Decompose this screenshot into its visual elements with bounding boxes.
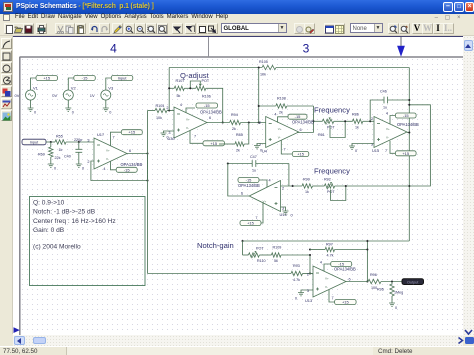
svg-text:V3: V3	[108, 86, 114, 91]
svg-text:Output: Output	[407, 280, 419, 284]
power bubble +15	[36, 76, 58, 81]
svg-text:7: 7	[255, 216, 257, 220]
resistor R109	[259, 254, 271, 256]
ground	[283, 211, 289, 214]
svg-text:R108: R108	[277, 97, 286, 101]
svg-text:+15: +15	[247, 221, 255, 226]
resistor R55	[55, 140, 66, 144]
resistor R96	[368, 279, 381, 283]
svg-text:Notch-gain: Notch-gain	[197, 241, 234, 250]
svg-text:1Meg: 1Meg	[394, 291, 403, 295]
svg-text:22k: 22k	[55, 156, 61, 160]
svg-text:7: 7	[113, 136, 115, 140]
svg-text:220p: 220p	[74, 138, 82, 142]
svg-text:0: 0	[295, 297, 297, 301]
svg-text:0: 0	[82, 167, 84, 171]
svg-text:POT: POT	[256, 247, 264, 251]
resistor R105	[262, 65, 276, 69]
ground	[254, 146, 260, 149]
svg-text:4: 4	[386, 112, 388, 116]
svg-text:1k: 1k	[305, 190, 309, 194]
wire pin4	[259, 180, 267, 187]
svg-text:3: 3	[168, 131, 170, 135]
svg-text:2: 2	[166, 106, 168, 110]
svg-text:OPA134/BB: OPA134/BB	[200, 109, 222, 114]
page border left	[19, 57, 21, 335]
ground	[161, 133, 167, 136]
resistor R86	[353, 119, 363, 123]
svg-text:0: 0	[260, 149, 262, 153]
power bubble -15	[238, 178, 259, 183]
resistor R85	[219, 143, 235, 145]
wire pin7	[281, 141, 292, 155]
wire pin4	[111, 161, 117, 170]
svg-text:OPA134/BB: OPA134/BB	[334, 267, 356, 272]
voltage source V2	[63, 90, 73, 100]
svg-text:2k: 2k	[279, 111, 283, 115]
svg-text:3: 3	[307, 289, 309, 293]
op-amp U4	[266, 117, 299, 148]
svg-text:R106: R106	[202, 94, 211, 98]
power bubble +15	[203, 141, 225, 146]
capacitor C47	[288, 164, 290, 187]
svg-text:4: 4	[110, 42, 117, 56]
wire pin4	[390, 116, 395, 125]
svg-text:R95: R95	[377, 288, 384, 292]
svg-text:R94: R94	[231, 113, 238, 117]
svg-text:U30: U30	[168, 136, 176, 141]
wire	[30, 100, 32, 108]
power bubble +15	[335, 300, 357, 305]
svg-text:R107: R107	[176, 79, 185, 83]
port Input	[22, 139, 46, 145]
svg-text:Input: Input	[118, 76, 128, 81]
capacitor C46	[370, 100, 384, 121]
wire pin7	[390, 141, 395, 154]
wire U17 output	[127, 153, 148, 155]
wire input net	[46, 141, 55, 143]
wire to pin2	[310, 255, 313, 274]
svg-text:7: 7	[194, 135, 196, 139]
svg-text:R110: R110	[257, 259, 266, 263]
svg-text:2: 2	[307, 273, 309, 277]
ground	[389, 303, 395, 306]
resistor R95	[391, 282, 393, 285]
potentiometer R92	[324, 184, 334, 188]
voltage source V3	[101, 90, 111, 100]
wire right loop	[409, 105, 430, 186]
svg-text:Notch: -1 dB->-25 dB: Notch: -1 dB->-25 dB	[33, 209, 96, 216]
resistor R104	[148, 110, 156, 112]
svg-text:0: 0	[34, 111, 36, 115]
power bubble -15	[116, 167, 137, 172]
svg-text:+15: +15	[128, 130, 136, 135]
wire stage1	[314, 120, 323, 122]
power bubble +15	[121, 130, 142, 135]
svg-text:OPA134/BB: OPA134/BB	[397, 122, 419, 127]
svg-text:0: 0	[355, 149, 357, 153]
svg-text:4: 4	[103, 167, 105, 171]
wire U15 +in ground	[352, 144, 374, 147]
svg-text:R61: R61	[318, 133, 325, 137]
page border top	[20, 56, 464, 58]
svg-text:OPA134/BB: OPA134/BB	[238, 183, 260, 188]
svg-text:V-: V-	[106, 157, 109, 161]
svg-text:Frequency: Frequency	[314, 106, 350, 115]
wire R106 wiper loop	[190, 81, 200, 88]
wire U16 +in ground	[281, 207, 286, 211]
svg-text:2: 2	[87, 160, 89, 164]
svg-text:7: 7	[332, 296, 334, 300]
svg-text:10k: 10k	[260, 73, 266, 77]
wire U4 +in ground	[257, 144, 266, 146]
svg-text:C40: C40	[64, 154, 71, 158]
op-amp U16	[249, 181, 280, 212]
resistor R99	[302, 184, 313, 188]
svg-text:6: 6	[300, 128, 302, 132]
svg-text:0V: 0V	[52, 93, 57, 98]
svg-text:+15: +15	[402, 151, 410, 156]
svg-text:R109: R109	[273, 246, 282, 250]
svg-text:R69: R69	[38, 153, 45, 157]
wire	[31, 78, 37, 90]
svg-text:6: 6	[129, 149, 131, 153]
status bar	[0, 346, 474, 355]
resistor R93	[291, 271, 302, 275]
wire pin7	[190, 131, 203, 144]
svg-text:5k: 5k	[274, 259, 278, 263]
voltage source V1	[26, 90, 36, 100]
svg-text:(c) 2004 Morello: (c) 2004 Morello	[33, 244, 81, 251]
svg-text:3: 3	[303, 42, 310, 56]
ground	[48, 164, 54, 167]
svg-text:0: 0	[291, 214, 293, 218]
wire pot loop	[330, 121, 345, 137]
svg-text:POT: POT	[327, 190, 335, 194]
wire main vertical net	[147, 111, 149, 274]
svg-text:-15: -15	[204, 103, 211, 108]
svg-text:V+: V+	[325, 277, 329, 281]
svg-text:0: 0	[72, 111, 74, 115]
resistor R97	[310, 249, 325, 251]
svg-text:3: 3	[87, 138, 89, 142]
svg-text:V-: V-	[278, 136, 281, 140]
ground	[76, 164, 82, 167]
title bar	[0, 0, 474, 14]
wire pin7	[329, 290, 335, 303]
wire	[67, 100, 69, 108]
marker arrow down	[397, 46, 405, 57]
port Output	[402, 279, 424, 285]
menu bar	[0, 14, 474, 22]
wire U13 +in ground	[301, 290, 313, 293]
svg-text:U15: U15	[372, 148, 379, 153]
resistor R94	[230, 120, 241, 124]
svg-text:1k: 1k	[355, 126, 359, 130]
svg-text:7: 7	[385, 149, 387, 153]
svg-text:+15: +15	[43, 76, 51, 81]
svg-text:V+: V+	[186, 118, 190, 122]
svg-text:V1: V1	[33, 86, 39, 91]
svg-text:0: 0	[109, 111, 111, 115]
svg-text:V-: V-	[386, 136, 389, 140]
svg-text:1u: 1u	[252, 169, 256, 173]
wire pin7	[261, 203, 263, 223]
svg-text:0: 0	[54, 167, 56, 171]
wire U15 output	[407, 132, 409, 134]
svg-text:2: 2	[371, 117, 373, 121]
svg-text:Q: 0.9->10: Q: 0.9->10	[33, 199, 65, 206]
svg-text:4: 4	[269, 179, 271, 183]
node input junctions	[50, 141, 52, 143]
wire pin4	[186, 108, 195, 113]
wire U30 output	[207, 122, 230, 124]
wire	[106, 78, 112, 90]
svg-text:R97: R97	[326, 243, 333, 247]
capacitor C40	[78, 142, 80, 149]
wire pot2 loop	[331, 186, 346, 201]
svg-text:R86: R86	[352, 113, 359, 117]
wire	[105, 100, 107, 108]
power bubble +15	[395, 151, 416, 156]
svg-text:R96: R96	[370, 273, 377, 277]
resistor R108	[259, 105, 276, 107]
svg-text:+15: +15	[297, 152, 305, 157]
svg-text:1k: 1k	[59, 148, 63, 152]
zone divider tick	[208, 37, 210, 57]
svg-text:-15: -15	[403, 113, 410, 118]
svg-text:+15: +15	[210, 141, 218, 146]
wire R106 to output	[206, 88, 223, 122]
svg-text:R104: R104	[156, 104, 165, 108]
svg-text:6: 6	[241, 192, 243, 196]
wire notch top	[243, 240, 410, 242]
wire pin7	[111, 132, 122, 145]
svg-text:1u: 1u	[383, 106, 387, 110]
wire U13 output	[346, 281, 368, 283]
svg-text:2: 2	[282, 187, 284, 191]
svg-text:Center freq : 16 Hz->160 Hz: Center freq : 16 Hz->160 Hz	[33, 218, 116, 225]
svg-text:0V: 0V	[15, 93, 20, 98]
svg-text:+15: +15	[342, 300, 350, 305]
svg-text:U17: U17	[97, 132, 104, 137]
svg-text:OPA134/BB: OPA134/BB	[121, 162, 143, 167]
svg-text:V+: V+	[386, 127, 390, 131]
svg-text:U4: U4	[262, 149, 268, 154]
svg-text:R99: R99	[303, 178, 310, 182]
op-amp U30	[174, 107, 207, 138]
svg-text:POT: POT	[202, 79, 210, 83]
svg-text:R105: R105	[259, 60, 268, 64]
svg-text:U13: U13	[305, 298, 312, 303]
svg-text:R55: R55	[56, 134, 63, 138]
svg-text:C46: C46	[380, 90, 387, 94]
svg-text:V2: V2	[71, 86, 77, 91]
ground	[298, 293, 304, 296]
svg-text:Gain: 0 dB: Gain: 0 dB	[33, 227, 65, 234]
svg-text:1V: 1V	[90, 93, 95, 98]
svg-text:4: 4	[274, 113, 276, 117]
op-amp U17	[94, 138, 127, 169]
svg-text:Frequency: Frequency	[314, 167, 350, 176]
power bubble -15	[395, 113, 416, 118]
svg-text:OPA134/BB: OPA134/BB	[292, 119, 314, 124]
wire R93 input	[148, 273, 292, 275]
svg-text:2k: 2k	[236, 149, 240, 153]
potentiometer R110	[243, 254, 249, 256]
svg-text:6: 6	[349, 278, 351, 282]
wire pin4	[324, 264, 331, 271]
power bubble Input	[111, 76, 133, 81]
wire U16 output	[228, 164, 249, 197]
svg-text:10k: 10k	[156, 116, 162, 120]
svg-text:V+: V+	[106, 149, 110, 153]
wire feedback net top	[168, 68, 170, 111]
op-amp U15	[374, 117, 407, 148]
svg-text:POT: POT	[327, 126, 335, 130]
svg-text:-15: -15	[124, 167, 131, 172]
svg-text:V-: V-	[325, 285, 328, 289]
power bubble -15	[288, 114, 307, 119]
wire stage2	[281, 185, 303, 187]
wire	[68, 78, 74, 90]
ground	[103, 108, 109, 111]
wire U4 output	[297, 132, 314, 134]
ground	[65, 108, 71, 111]
power bubble -15	[74, 76, 96, 81]
ground	[28, 108, 34, 111]
svg-text:V-: V-	[186, 126, 189, 130]
wire U30 +in ground	[164, 131, 175, 133]
potentiometer R61	[322, 119, 333, 123]
svg-text:4: 4	[180, 103, 182, 107]
svg-text:-15: -15	[82, 76, 89, 81]
svg-text:0: 0	[395, 306, 397, 310]
svg-text:2: 2	[259, 121, 261, 125]
resistor R107	[169, 87, 174, 89]
svg-text:4.7k: 4.7k	[327, 254, 334, 258]
svg-text:C47: C47	[250, 155, 257, 159]
svg-text:7: 7	[284, 148, 286, 152]
power bubble +15	[292, 152, 309, 157]
svg-text:6: 6	[209, 116, 211, 120]
wire R105 drop	[258, 68, 260, 123]
svg-text:R85: R85	[236, 133, 243, 137]
wire output node vertical	[366, 241, 368, 282]
svg-text:4.7k: 4.7k	[293, 278, 300, 282]
svg-text:4: 4	[320, 261, 322, 265]
wire feedback right vertical	[408, 68, 410, 242]
power bubble -15	[331, 262, 352, 267]
canvas top edge	[13, 36, 463, 38]
op-amp U13	[313, 266, 346, 297]
svg-text:V+: V+	[278, 127, 282, 131]
annotation text box	[30, 197, 146, 286]
svg-text:R92: R92	[324, 178, 331, 182]
svg-text:R93: R93	[293, 264, 300, 268]
potentiometer R106	[196, 86, 206, 90]
svg-text:2k: 2k	[232, 127, 236, 131]
wire U17 feedback	[91, 154, 148, 181]
ground	[349, 146, 355, 149]
power bubble +15	[240, 221, 261, 226]
wire R108 to output	[313, 106, 315, 133]
svg-text:0: 0	[167, 136, 169, 140]
marker arrow right	[14, 327, 20, 333]
svg-text:-15: -15	[246, 178, 253, 183]
svg-text:Input: Input	[30, 141, 39, 145]
resistor R69	[50, 142, 52, 147]
power bubble -15	[196, 103, 218, 108]
svg-text:5k: 5k	[177, 94, 181, 98]
wire pin4	[278, 117, 288, 123]
